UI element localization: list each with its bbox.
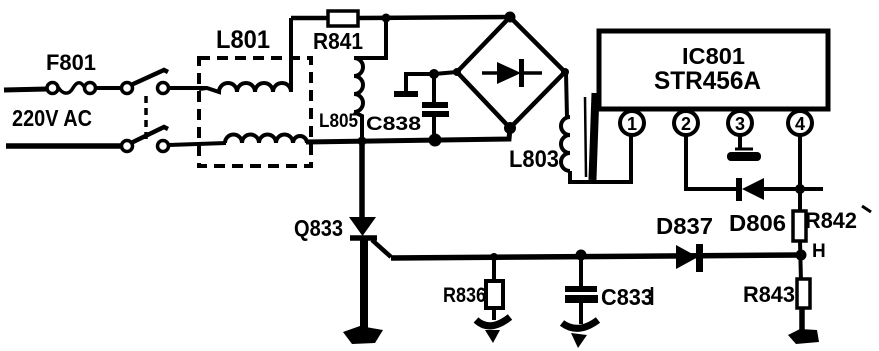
- pin 3: [728, 109, 752, 135]
- wire AC live input: [4, 89, 47, 90]
- wire L803 bottom to pin 1: [570, 135, 631, 182]
- junction bridge bottom vertex: [504, 122, 516, 134]
- switch S801b: [122, 127, 169, 152]
- pin 1: [620, 109, 644, 135]
- inductor L805: [354, 58, 363, 112]
- thyristor Q833: [349, 217, 377, 238]
- wire switch S801b to L801: [169, 143, 226, 145]
- svg-text:R836: R836: [443, 284, 486, 307]
- junction C838 top: [429, 69, 439, 79]
- resistor R841: [328, 11, 358, 26]
- svg-text:R842: R842: [805, 208, 857, 233]
- riser stroke on C833 last glyph: [651, 287, 654, 305]
- wire bridge left vertex to chassis: [406, 72, 457, 91]
- junction pin4 / D806: [795, 184, 805, 194]
- top rail wire: [291, 17, 510, 18]
- svg-text:2: 2: [681, 114, 691, 134]
- chassis plate: [394, 91, 418, 97]
- diode D806: [736, 178, 764, 201]
- junction top rail / L805: [382, 14, 391, 23]
- capacitor C833: [565, 255, 598, 324]
- svg-text:4: 4: [795, 114, 805, 134]
- resistor R842: [793, 211, 806, 241]
- svg-text:L803: L803: [509, 146, 559, 173]
- resistor R836: [486, 257, 503, 320]
- wire pin 4 down: [798, 135, 802, 211]
- junction R836: [490, 253, 498, 261]
- svg-text:D806: D806: [729, 210, 786, 236]
- switch S801a: [122, 70, 169, 94]
- junction bridge left vertex: [453, 68, 461, 76]
- svg-text:C833: C833: [601, 284, 653, 310]
- resistor R843: [797, 279, 810, 308]
- capacitor pin 3: [727, 135, 761, 161]
- capacitor C838: [422, 74, 449, 140]
- svg-text:R841: R841: [313, 28, 363, 54]
- junction C833: [576, 250, 587, 261]
- svg-text:3: 3: [735, 114, 745, 134]
- wire bridge right vertex down: [566, 73, 567, 117]
- svg-text:1: 1: [627, 114, 637, 134]
- switch linkage dashed: [144, 96, 148, 141]
- svg-text:L801: L801: [216, 26, 270, 54]
- ground R843: [788, 329, 819, 344]
- tick mark after R842: [862, 206, 871, 212]
- diode D837: [676, 244, 703, 272]
- main bus wire: [391, 255, 801, 258]
- L801 top winding: [199, 83, 291, 92]
- wire D806 to pin 4 line: [764, 187, 823, 191]
- junction bridge right vertex: [561, 68, 569, 76]
- ground Q833: [343, 326, 383, 344]
- wire R842 to node H: [800, 241, 801, 282]
- bottom rail wire: [306, 128, 510, 142]
- junction bridge top vertex: [505, 12, 516, 23]
- wire switch S801a to L801: [169, 86, 207, 90]
- wire junction to L805: [354, 18, 386, 58]
- line filter L801 dashed box: [199, 58, 311, 166]
- junction L805 / bottom rail: [358, 137, 367, 146]
- svg-text:D837: D837: [656, 213, 713, 239]
- junction C838 bottom: [429, 134, 442, 147]
- svg-text:220V AC: 220V AC: [12, 105, 92, 131]
- L801 bottom winding: [225, 135, 307, 144]
- svg-text:IC801: IC801: [682, 43, 745, 69]
- pin 2: [674, 109, 698, 135]
- svg-text:H: H: [812, 241, 826, 262]
- svg-text:F801: F801: [46, 50, 96, 75]
- fuse F801: [47, 83, 96, 94]
- wire pin 2 to D806: [686, 135, 737, 189]
- wire Q833 anode: [359, 141, 365, 217]
- svg-text:R843: R843: [743, 282, 795, 307]
- wire AC neutral input: [6, 143, 121, 149]
- wire L801 top winding to top rail: [289, 18, 293, 92]
- wire L805 to bottom rail: [354, 112, 362, 141]
- wire fuse to switch S801a: [96, 86, 121, 90]
- bridge diode symbol: [482, 59, 542, 87]
- IC801 box: [599, 31, 828, 109]
- wire Q833 to main bus: [372, 240, 391, 257]
- node H: [796, 250, 807, 261]
- pin 4: [788, 109, 812, 135]
- ground R836: [476, 317, 510, 343]
- transformer core: [585, 93, 599, 180]
- ground C833: [562, 320, 598, 348]
- bridge rectifier: [457, 17, 565, 128]
- wire R843 to ground: [799, 308, 805, 331]
- svg-text:Q833: Q833: [294, 215, 343, 241]
- svg-text:STR456A: STR456A: [654, 67, 761, 95]
- svg-text:L805: L805: [319, 111, 358, 132]
- wire Q833 cathode to ground: [360, 240, 368, 330]
- transformer primary L803: [561, 117, 570, 171]
- svg-text:C838: C838: [366, 114, 421, 135]
